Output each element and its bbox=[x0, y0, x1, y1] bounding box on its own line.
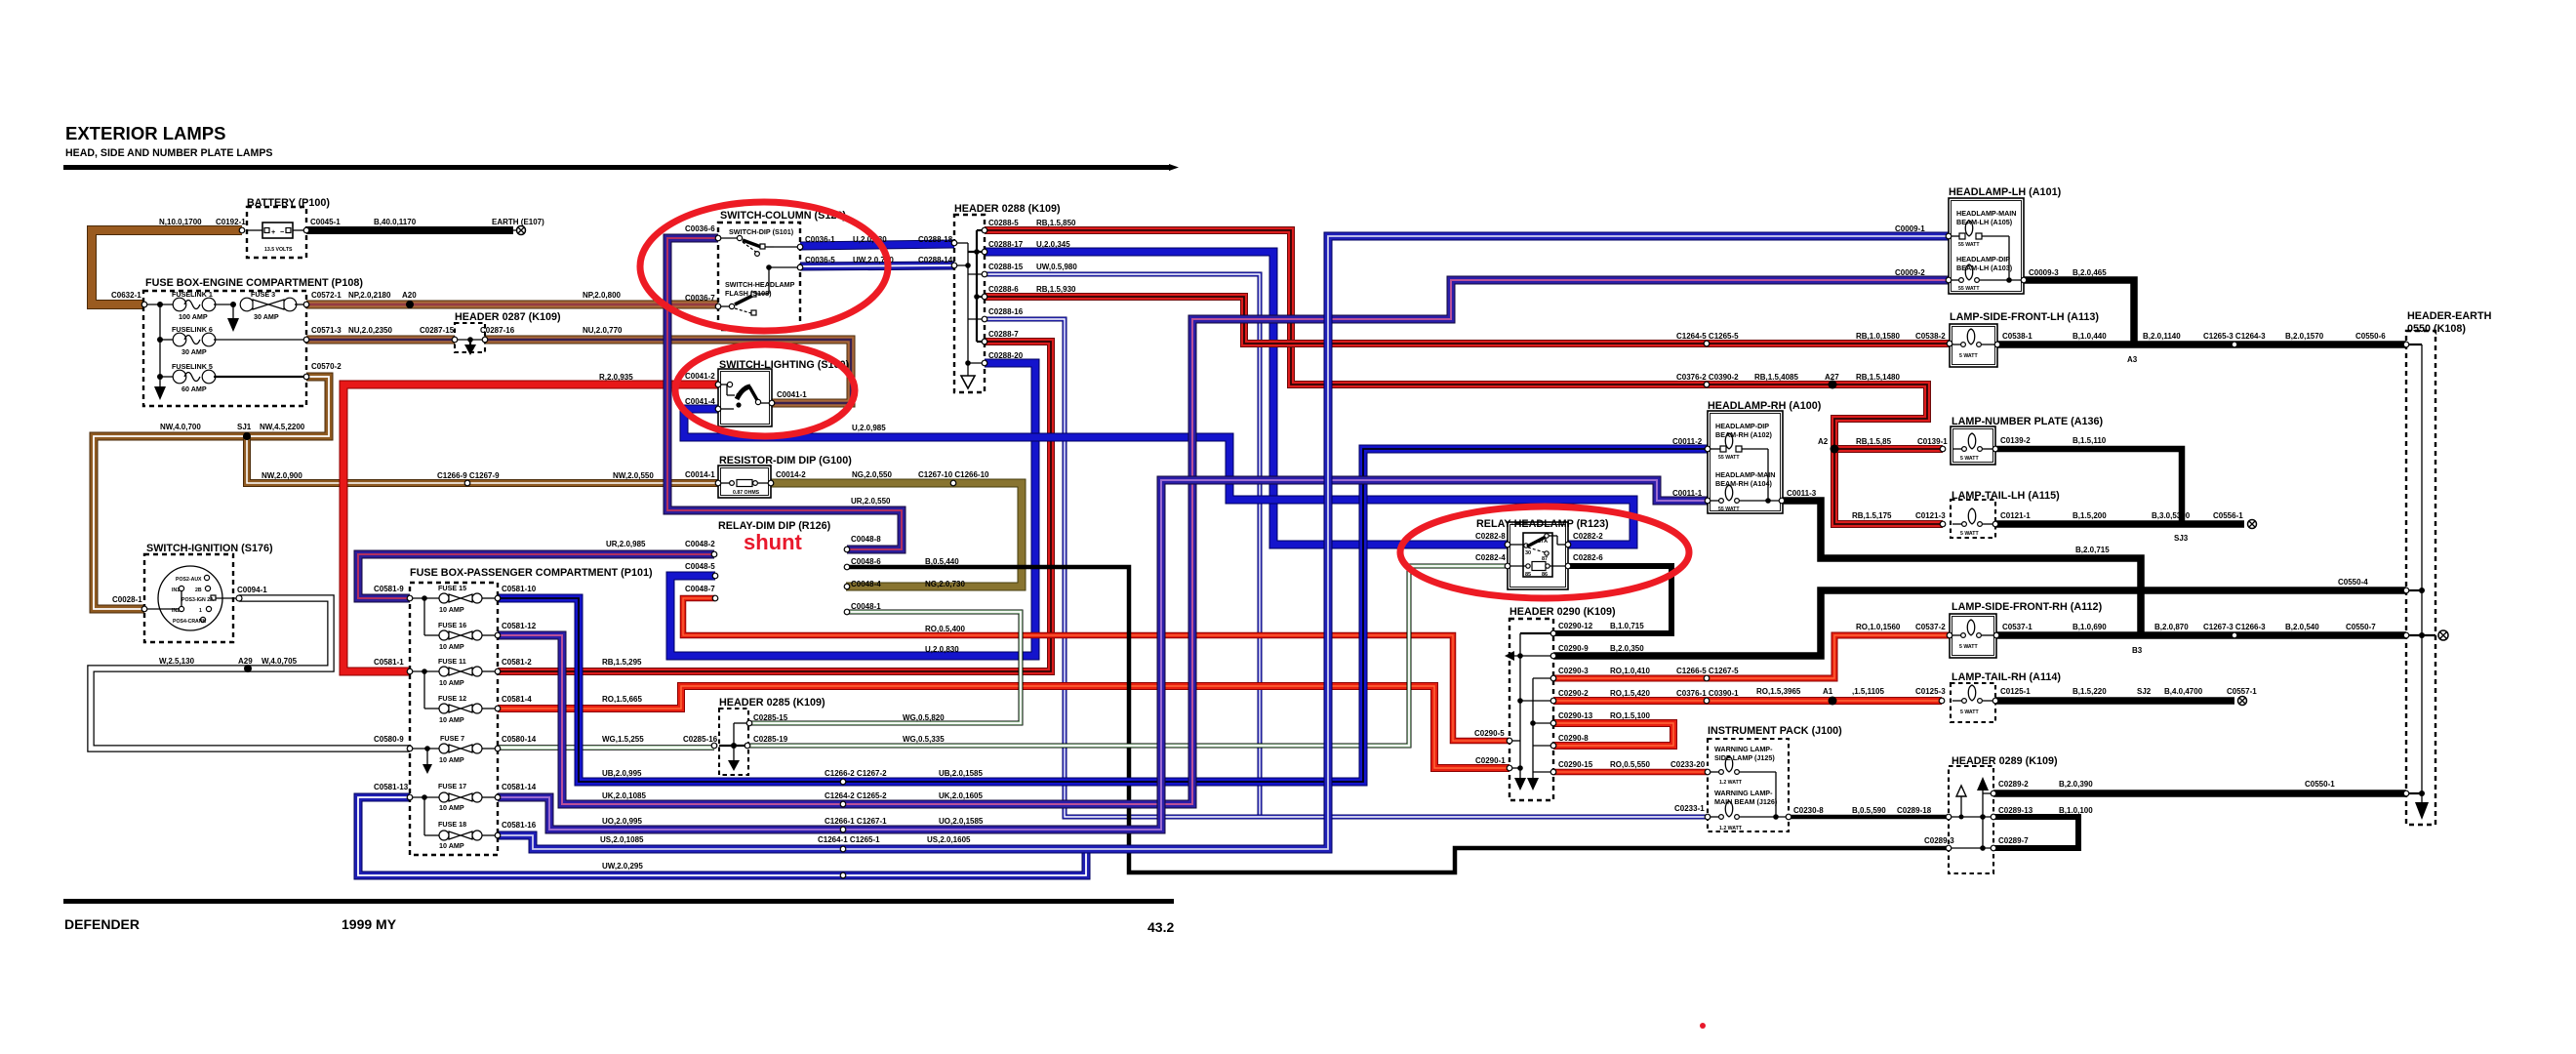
wire B,0.5,440 C0048-6 to header0289 C0289-3 bbox=[847, 567, 1949, 872]
fuse 12 bbox=[423, 671, 425, 709]
svg-text:C0009-1: C0009-1 bbox=[1895, 224, 1925, 233]
svg-text:IN2: IN2 bbox=[172, 608, 180, 614]
svg-text:R,2.0,935: R,2.0,935 bbox=[599, 373, 633, 382]
svg-text:UW,0.5,980: UW,0.5,980 bbox=[1036, 263, 1077, 271]
svg-text:B,2.0,870: B,2.0,870 bbox=[2154, 623, 2189, 631]
junction A27 bbox=[1829, 381, 1837, 389]
svg-text:C0290-8: C0290-8 bbox=[1558, 734, 1589, 743]
svg-text:1.2 WATT: 1.2 WATT bbox=[1719, 826, 1743, 831]
svg-text:C0139-2: C0139-2 bbox=[2000, 436, 2031, 445]
svg-text:NU,2.0,2350: NU,2.0,2350 bbox=[348, 326, 392, 335]
svg-text:C0048-5: C0048-5 bbox=[685, 562, 715, 571]
svg-text:1.2 WATT: 1.2 WATT bbox=[1719, 780, 1743, 786]
wire UW,0.5 header0288 C0288-16 to instrument pack C0233-1 bbox=[985, 319, 1708, 817]
svg-text:C0557-1: C0557-1 bbox=[2227, 687, 2257, 696]
svg-text:FUSELINK 1: FUSELINK 1 bbox=[172, 290, 213, 299]
svg-text:13.5 VOLTS: 13.5 VOLTS bbox=[264, 247, 293, 253]
svg-text:C0581-14: C0581-14 bbox=[502, 783, 537, 791]
svg-text:C0048-8: C0048-8 bbox=[851, 535, 881, 544]
svg-text:B,2.0,715: B,2.0,715 bbox=[2075, 546, 2110, 554]
svg-text:C0556-1: C0556-1 bbox=[2213, 511, 2243, 520]
header 0289 K109 bbox=[1949, 766, 1993, 873]
svg-text:10 AMP: 10 AMP bbox=[439, 841, 464, 850]
svg-text:55 WATT: 55 WATT bbox=[1958, 242, 1980, 248]
wire B,2.0,465 headlamp-LH to A3 bbox=[2024, 280, 2134, 345]
wire NU,2.0,2350 bbox=[306, 336, 455, 345]
svg-text:B,40.0,1170: B,40.0,1170 bbox=[374, 218, 417, 226]
svg-text:C0048-4: C0048-4 bbox=[851, 580, 881, 588]
svg-text:C0282-8: C0282-8 bbox=[1475, 532, 1506, 541]
svg-text:C0288-6: C0288-6 bbox=[988, 285, 1019, 294]
svg-text:HEADLAMP-LH (A101): HEADLAMP-LH (A101) bbox=[1949, 186, 2062, 198]
svg-text:10 AMP: 10 AMP bbox=[439, 803, 464, 812]
lamp tail LH A115 bbox=[1951, 500, 1995, 538]
wire UW,0.5,980 header0288 C0288-15 splice down bbox=[985, 274, 1260, 817]
svg-text:POS3-IGN 2A: POS3-IGN 2A bbox=[181, 597, 214, 603]
svg-text:HEADER 0290 (K109): HEADER 0290 (K109) bbox=[1509, 606, 1616, 618]
svg-text:C0581-2: C0581-2 bbox=[502, 658, 532, 667]
svg-text:C0125-1: C0125-1 bbox=[2000, 687, 2031, 696]
wire B,2.0,715 headlamp-RH C0011-3 to B3 bbox=[1783, 501, 2141, 635]
svg-text:55 WATT: 55 WATT bbox=[1718, 507, 1740, 512]
svg-text:C1265-3 C1264-3: C1265-3 C1264-3 bbox=[2203, 332, 2266, 341]
svg-text:C0289-2: C0289-2 bbox=[1998, 780, 2029, 789]
svg-text:A1: A1 bbox=[1823, 687, 1833, 696]
svg-text:C0581-1: C0581-1 bbox=[374, 658, 404, 667]
earth ring C0556-1 bbox=[2248, 520, 2257, 529]
lamp side front RH A112 bbox=[1950, 614, 1996, 658]
svg-text:UW,2.0,295: UW,2.0,295 bbox=[602, 862, 643, 871]
svg-text:C0139-1: C0139-1 bbox=[1917, 437, 1948, 446]
red dot bottom bbox=[1700, 1023, 1706, 1029]
svg-text:C0125-3: C0125-3 bbox=[1915, 687, 1946, 696]
svg-text:C0581-13: C0581-13 bbox=[374, 783, 409, 791]
svg-text:HEADER-EARTH: HEADER-EARTH bbox=[2407, 310, 2492, 322]
svg-text:C0288-14: C0288-14 bbox=[918, 256, 953, 264]
svg-text:W,2.5,130: W,2.5,130 bbox=[159, 657, 195, 666]
svg-text:55 WATT: 55 WATT bbox=[1958, 286, 1980, 292]
svg-text:FUSE BOX-ENGINE COMPARTMENT (P: FUSE BOX-ENGINE COMPARTMENT (P108) bbox=[145, 277, 363, 289]
wire UO,2.0,995 / UO,2.0,1585 fuse17 to headlamp-RH main C0011-1 bbox=[498, 480, 1708, 830]
svg-text:C0581-16: C0581-16 bbox=[502, 821, 537, 830]
svg-text:WG,1.5,255: WG,1.5,255 bbox=[602, 735, 644, 744]
lamp tail RH A114 bbox=[1951, 683, 1995, 722]
svg-text:RB,1.5,175: RB,1.5,175 bbox=[1852, 511, 1892, 520]
svg-text:5 WATT: 5 WATT bbox=[1960, 456, 1979, 462]
svg-text:C0580-9: C0580-9 bbox=[374, 735, 404, 744]
svg-text:C1267-3 C1266-3: C1267-3 C1266-3 bbox=[2203, 623, 2266, 631]
wire N,10.0,1700 battery to fusebox bbox=[92, 230, 242, 304]
junction A3 bbox=[2131, 342, 2138, 348]
svg-text:NW,4.0,700: NW,4.0,700 bbox=[160, 423, 201, 431]
svg-text:BEAM-LH (A105): BEAM-LH (A105) bbox=[1956, 218, 2013, 226]
svg-text:HEADER 0288 (K109): HEADER 0288 (K109) bbox=[954, 203, 1061, 215]
svg-text:86: 86 bbox=[1542, 572, 1548, 578]
svg-text:C0041-4: C0041-4 bbox=[685, 397, 715, 406]
svg-text:WARNING LAMP-: WARNING LAMP- bbox=[1714, 789, 1773, 797]
svg-text:55 WATT: 55 WATT bbox=[1718, 455, 1740, 461]
svg-text:HEADER 0285 (K109): HEADER 0285 (K109) bbox=[719, 697, 825, 709]
junction A1 bbox=[1829, 697, 1837, 706]
wire NW,2.0,900 / NW,2.0,550 bbox=[247, 436, 718, 483]
wire NW,4.5,2200 / NW,4.0,700 bbox=[94, 377, 329, 609]
wire B,1.0,100 loop C0289-13 to C0289-7 bbox=[1993, 817, 2078, 848]
svg-text:RB,1.5,1480: RB,1.5,1480 bbox=[1856, 373, 1900, 382]
svg-text:C0282-2: C0282-2 bbox=[1573, 532, 1603, 541]
svg-text:FUSE 12: FUSE 12 bbox=[438, 694, 466, 703]
svg-text:B,2.0,465: B,2.0,465 bbox=[2073, 268, 2107, 277]
svg-text:SJ2: SJ2 bbox=[2137, 687, 2152, 696]
svg-text:B,2.0,1570: B,2.0,1570 bbox=[2285, 332, 2324, 341]
svg-text:RB,1.5,930: RB,1.5,930 bbox=[1036, 285, 1076, 294]
svg-text:C0537-2: C0537-2 bbox=[1915, 623, 1946, 631]
svg-text:C0288-20: C0288-20 bbox=[988, 351, 1024, 360]
wire R,2.0,935 fuse11 to switch-lighting bbox=[343, 385, 718, 671]
svg-text:C0285-15: C0285-15 bbox=[753, 713, 788, 722]
svg-text:HEADLAMP-RH (A100): HEADLAMP-RH (A100) bbox=[1708, 400, 1822, 412]
wire U,2.0,830 header C0288-20 to relay-dim-dip C0048-5 bbox=[670, 363, 1035, 656]
svg-text:BATTERY (P100): BATTERY (P100) bbox=[247, 197, 330, 209]
svg-text:C0041-2: C0041-2 bbox=[685, 372, 715, 381]
header earth 0550 K108 bbox=[2406, 331, 2448, 825]
svg-text:C1264-5 C1265-5: C1264-5 C1265-5 bbox=[1676, 332, 1739, 341]
svg-text:C0290-5: C0290-5 bbox=[1474, 729, 1505, 738]
svg-text:FUSE BOX-PASSENGER COMPARTMENT: FUSE BOX-PASSENGER COMPARTMENT (P101) bbox=[410, 567, 653, 579]
svg-text:C1264-1 C1265-1: C1264-1 C1265-1 bbox=[818, 835, 880, 844]
earth E107 symbol bbox=[513, 226, 526, 235]
svg-text:10 AMP: 10 AMP bbox=[439, 755, 464, 764]
wire B,1.0,715 relay C0282-6 to header0290 C0290-12 bbox=[1553, 566, 1671, 633]
svg-text:C0048-6: C0048-6 bbox=[851, 557, 881, 566]
svg-text:C0288-7: C0288-7 bbox=[988, 330, 1019, 339]
svg-text:C0282-4: C0282-4 bbox=[1475, 553, 1506, 562]
svg-text:C0014-1: C0014-1 bbox=[685, 470, 715, 479]
svg-text:RO,1.0,410: RO,1.0,410 bbox=[1610, 667, 1650, 675]
svg-text:HEADLAMP-MAIN: HEADLAMP-MAIN bbox=[1956, 209, 2017, 218]
wire US,2.0,1085 / US,2.0,1605 fuse18 to headlamp-LH main C0009-1 bbox=[498, 236, 1949, 849]
wire RO,1.5,665 fuse12 to header0290 C0290-1 bbox=[498, 686, 1509, 768]
svg-text:NW,2.0,550: NW,2.0,550 bbox=[613, 471, 654, 480]
svg-text:W,4.0,705: W,4.0,705 bbox=[262, 657, 298, 666]
svg-text:HEADLAMP-DIP: HEADLAMP-DIP bbox=[1956, 255, 2010, 263]
svg-text:FUSE 7: FUSE 7 bbox=[440, 734, 464, 743]
wire RO,1.0,410 / RO,1.0,1560 header0290 to lamp-side-front-RH bbox=[1553, 635, 1950, 678]
wire UR,2.0,550 C0036-6 to shunt C0048-8 bbox=[667, 238, 902, 549]
instrument pack J100 bbox=[1708, 739, 1789, 831]
svg-text:NU,2.0,770: NU,2.0,770 bbox=[583, 326, 623, 335]
junction B3 bbox=[2138, 632, 2145, 639]
svg-text:100 AMP: 100 AMP bbox=[179, 312, 208, 321]
battery P100 bbox=[247, 207, 306, 258]
svg-text:C0282-6: C0282-6 bbox=[1573, 553, 1603, 562]
svg-text:B,2.0,390: B,2.0,390 bbox=[2059, 780, 2093, 789]
svg-text:B,2.0,350: B,2.0,350 bbox=[1610, 644, 1644, 653]
svg-text:LAMP-TAIL-LH (A115): LAMP-TAIL-LH (A115) bbox=[1952, 490, 2060, 502]
svg-text:RO,1.0,1560: RO,1.0,1560 bbox=[1856, 623, 1901, 631]
svg-text:30 AMP: 30 AMP bbox=[181, 347, 207, 356]
svg-text:C0045-1: C0045-1 bbox=[310, 218, 341, 226]
svg-text:C0048-7: C0048-7 bbox=[685, 585, 715, 593]
svg-text:C1266-1 C1267-1: C1266-1 C1267-1 bbox=[825, 817, 887, 826]
wire B,1.0,690 / B,2.0,870 / B,2.0,540 lamp-side-RH to header-earth C0550-7 bbox=[1996, 631, 2406, 639]
svg-text:B,2.0,1140: B,2.0,1140 bbox=[2143, 332, 2181, 341]
svg-text:C0538-2: C0538-2 bbox=[1915, 332, 1946, 341]
svg-text:B,1.5,220: B,1.5,220 bbox=[2073, 687, 2107, 696]
svg-text:C1264-2 C1265-2: C1264-2 C1265-2 bbox=[825, 791, 887, 800]
svg-text:SWITCH-DIP (S101): SWITCH-DIP (S101) bbox=[729, 227, 794, 236]
svg-text:C0550-7: C0550-7 bbox=[2346, 623, 2376, 631]
svg-text:C0036-1: C0036-1 bbox=[805, 235, 835, 244]
wire UR,2.0,985 fuse15 feed to shunt C0048-2 bbox=[358, 554, 714, 598]
svg-text:43.2: 43.2 bbox=[1147, 919, 1174, 935]
svg-text:B,0.5,440: B,0.5,440 bbox=[925, 557, 959, 566]
fuselink 5 bbox=[160, 376, 174, 378]
svg-text:2B: 2B bbox=[195, 588, 202, 593]
svg-text:C0287-16: C0287-16 bbox=[480, 326, 515, 335]
svg-text:C0632-1: C0632-1 bbox=[111, 291, 141, 300]
connector symbols on wires bbox=[239, 227, 245, 233]
svg-text:POS4-CRANK: POS4-CRANK bbox=[173, 619, 207, 625]
svg-text:A2: A2 bbox=[1818, 437, 1829, 446]
fuse box engine compartment P108 bbox=[143, 291, 306, 406]
svg-text:B,1.5,200: B,1.5,200 bbox=[2073, 511, 2107, 520]
junction SJ1 bbox=[243, 432, 251, 440]
fuse 7 bbox=[410, 748, 439, 750]
wire B,0.5,590 instrument pack to header0289 C0289-18 bbox=[1789, 815, 1949, 820]
svg-text:BEAM-RH (A104): BEAM-RH (A104) bbox=[1715, 479, 1773, 488]
svg-text:C0581-9: C0581-9 bbox=[374, 585, 404, 593]
svg-text:C1266-2 C1267-2: C1266-2 C1267-2 bbox=[825, 769, 887, 778]
wire UW,2.0,780 bbox=[800, 265, 954, 266]
svg-text:85: 85 bbox=[1525, 572, 1531, 578]
wire WG,0.5,335 header0285 to relay C0282-4 bbox=[747, 566, 1508, 746]
lamp number plate A136 bbox=[1951, 426, 1995, 465]
svg-text:C0290-13: C0290-13 bbox=[1558, 711, 1593, 720]
svg-text:5 WATT: 5 WATT bbox=[1959, 353, 1978, 359]
svg-text:EXTERIOR LAMPS: EXTERIOR LAMPS bbox=[65, 123, 225, 143]
svg-text:C0580-14: C0580-14 bbox=[502, 735, 537, 744]
svg-text:FUSELINK 5: FUSELINK 5 bbox=[172, 362, 213, 371]
svg-text:NG,2.0,550: NG,2.0,550 bbox=[852, 470, 892, 479]
junction A20 bbox=[406, 301, 414, 308]
svg-text:C0581-4: C0581-4 bbox=[502, 695, 532, 704]
headlamp RH A100 bbox=[1708, 411, 1785, 513]
svg-text:C0571-3: C0571-3 bbox=[311, 326, 342, 335]
svg-text:C0036-6: C0036-6 bbox=[685, 224, 715, 233]
svg-text:C0290-3: C0290-3 bbox=[1558, 667, 1589, 675]
svg-text:C0014-2: C0014-2 bbox=[776, 470, 806, 479]
svg-text:C1266-9 C1267-9: C1266-9 C1267-9 bbox=[437, 471, 500, 480]
svg-text:MAIN BEAM (J126): MAIN BEAM (J126) bbox=[1714, 797, 1778, 806]
header 0287 K109 bbox=[455, 323, 485, 355]
svg-text:C0290-9: C0290-9 bbox=[1558, 644, 1589, 653]
svg-text:B,2.0,540: B,2.0,540 bbox=[2285, 623, 2319, 631]
wire U,2.0,345 header0288 to relay C0282-8 bbox=[985, 252, 1508, 545]
junction A29 bbox=[244, 665, 252, 672]
svg-text:RB,1.5,295: RB,1.5,295 bbox=[602, 658, 642, 667]
svg-text:C0550-4: C0550-4 bbox=[2338, 578, 2368, 587]
svg-text:NW,4.5,2200: NW,4.5,2200 bbox=[260, 423, 305, 431]
fuse 15 bbox=[410, 597, 439, 599]
svg-text:UR,2.0,985: UR,2.0,985 bbox=[606, 540, 646, 548]
svg-text:C0048-2: C0048-2 bbox=[685, 540, 715, 548]
svg-text:SJ1: SJ1 bbox=[237, 423, 252, 431]
headlamp LH A101 bbox=[1949, 198, 2024, 294]
svg-text:C0289-13: C0289-13 bbox=[1998, 806, 2033, 815]
svg-text:0550 (K108): 0550 (K108) bbox=[2407, 323, 2466, 335]
svg-text:C0041-1: C0041-1 bbox=[777, 390, 807, 399]
svg-text:RO,1.5,100: RO,1.5,100 bbox=[1610, 711, 1650, 720]
svg-text:30 AMP: 30 AMP bbox=[254, 312, 279, 321]
fuse 3 bbox=[240, 298, 254, 311]
svg-text:RESISTOR-DIM DIP (G100): RESISTOR-DIM DIP (G100) bbox=[719, 455, 852, 466]
svg-text:5 WATT: 5 WATT bbox=[1960, 709, 1979, 715]
wire B,1.5,220 / B,4.0,4700 lamp-tail-RH to C0557-1 earth bbox=[1995, 697, 2234, 705]
svg-text:C0581-10: C0581-10 bbox=[502, 585, 537, 593]
svg-text:A20: A20 bbox=[402, 291, 417, 300]
svg-text:C0009-2: C0009-2 bbox=[1895, 268, 1925, 277]
red ellipse around switch-column bbox=[640, 202, 888, 331]
svg-text:RO,0.5,550: RO,0.5,550 bbox=[1610, 760, 1650, 769]
svg-text:NG,2.0,730: NG,2.0,730 bbox=[925, 580, 965, 588]
svg-text:B,1.0,715: B,1.0,715 bbox=[1610, 622, 1644, 630]
svg-text:C0376-2 C0390-2: C0376-2 C0390-2 bbox=[1676, 373, 1739, 382]
svg-text:C0550-1: C0550-1 bbox=[2305, 780, 2335, 789]
svg-text:C1267-10 C1266-10: C1267-10 C1266-10 bbox=[918, 470, 989, 479]
svg-text:C0011-1: C0011-1 bbox=[1672, 489, 1703, 498]
svg-text:5 WATT: 5 WATT bbox=[1959, 644, 1978, 650]
svg-text:+: + bbox=[271, 227, 275, 236]
fuse 16 bbox=[423, 598, 425, 635]
svg-text:NW,2.0,900: NW,2.0,900 bbox=[262, 471, 302, 480]
svg-text:DEFENDER: DEFENDER bbox=[64, 916, 140, 932]
wire RO,1.5,100 loop C0290-13 to C0290-8 bbox=[1553, 723, 1673, 746]
wire B,40.0,1170 battery to earth bbox=[306, 226, 513, 234]
svg-text:5 WATT: 5 WATT bbox=[1960, 531, 1979, 537]
wire W,2.5,130 / W,4.0,705 ignition switch to fuse7 bbox=[91, 598, 410, 749]
svg-text:−: − bbox=[280, 227, 284, 236]
svg-text:B,1.0,440: B,1.0,440 bbox=[2073, 332, 2107, 341]
svg-text:US,2.0,1605: US,2.0,1605 bbox=[927, 835, 971, 844]
svg-text:UK,2.0,1085: UK,2.0,1085 bbox=[602, 791, 646, 800]
junction SJ3 bbox=[2179, 521, 2185, 527]
fuse 18 bbox=[423, 797, 425, 835]
svg-text:EARTH (E107): EARTH (E107) bbox=[492, 218, 544, 226]
lamp side front LH A113 bbox=[1950, 324, 1997, 367]
TITLE BLOCK bbox=[63, 123, 1179, 935]
svg-text:C0036-7: C0036-7 bbox=[685, 294, 715, 303]
svg-text:FUSELINK 6: FUSELINK 6 bbox=[172, 325, 213, 334]
fuselink 6 bbox=[160, 339, 174, 341]
svg-text:HEAD, SIDE AND NUMBER PLATE LA: HEAD, SIDE AND NUMBER PLATE LAMPS bbox=[65, 147, 272, 159]
svg-text:C0288-5: C0288-5 bbox=[988, 219, 1019, 227]
svg-text:FUSE 11: FUSE 11 bbox=[438, 657, 466, 666]
svg-text:FUSE 15: FUSE 15 bbox=[438, 584, 466, 592]
svg-text:60 AMP: 60 AMP bbox=[181, 385, 207, 393]
relay headlamp R123 bbox=[1508, 522, 1568, 589]
junction A2 bbox=[1831, 445, 1839, 454]
svg-text:C0288-15: C0288-15 bbox=[988, 263, 1024, 271]
svg-text:UO,2.0,1585: UO,2.0,1585 bbox=[939, 817, 984, 826]
svg-text:HEADER 0287 (K109): HEADER 0287 (K109) bbox=[455, 311, 561, 323]
fuse 11 bbox=[410, 670, 439, 672]
svg-text:US,2.0,1085: US,2.0,1085 bbox=[600, 835, 644, 844]
svg-text:C0290-15: C0290-15 bbox=[1558, 760, 1593, 769]
svg-text:B,3.0,5390: B,3.0,5390 bbox=[2152, 511, 2191, 520]
svg-text:WARNING LAMP-: WARNING LAMP- bbox=[1714, 745, 1773, 753]
svg-text:C0285-19: C0285-19 bbox=[753, 735, 788, 744]
wire WG,0.5,820 C0048-1 to header0285 C0285-15 bbox=[747, 612, 1021, 723]
svg-text:NP,2.0,800: NP,2.0,800 bbox=[583, 291, 622, 300]
svg-text:B,0.5,590: B,0.5,590 bbox=[1852, 806, 1886, 815]
svg-text:UK,2.0,1605: UK,2.0,1605 bbox=[939, 791, 983, 800]
svg-text:C0572-1: C0572-1 bbox=[311, 291, 342, 300]
svg-text:SIDE LAMP (J125): SIDE LAMP (J125) bbox=[1714, 753, 1775, 762]
svg-text:B,4.0,4700: B,4.0,4700 bbox=[2164, 687, 2203, 696]
svg-text:B,1.0,100: B,1.0,100 bbox=[2059, 806, 2093, 815]
wire RB,1.5,850 / RB,1.5,4085 / RB,1.5,1480 / RB,1.5,175 bbox=[985, 230, 1943, 524]
svg-text:C0538-1: C0538-1 bbox=[2002, 332, 2033, 341]
svg-text:C0289-18: C0289-18 bbox=[1897, 806, 1932, 815]
connector C1266-9 C1267-9 bbox=[464, 480, 470, 486]
wire B,1.0,440 / B,2.0,1140 / B,2.0,1570 lamp-side-LH to header-earth C0550-6 bbox=[1997, 341, 2406, 348]
svg-text:shunt: shunt bbox=[744, 530, 803, 554]
svg-text:IN1: IN1 bbox=[172, 588, 180, 593]
svg-text:A29: A29 bbox=[238, 657, 253, 666]
wire UB,2.0,995 / UB,2.0,1585 fuse15 to headlamp-RH dip C0011-2 bbox=[498, 449, 1708, 782]
header 0290 K109 bbox=[1505, 619, 1553, 800]
svg-text:C0233-20: C0233-20 bbox=[1670, 760, 1706, 769]
svg-text:C0285-16: C0285-16 bbox=[683, 735, 718, 744]
wire RB,1.5,85 branch A2 to lamp-number-plate bbox=[1834, 445, 1943, 453]
svg-text:C1266-5 C1267-5: C1266-5 C1267-5 bbox=[1676, 667, 1739, 675]
svg-text:FLASH (S108): FLASH (S108) bbox=[725, 289, 772, 298]
svg-text:UB,2.0,995: UB,2.0,995 bbox=[602, 769, 642, 778]
wire UK,2.0,1085 / UK,2.0,1605 fuse16 to headlamp-LH dip C0009-2 bbox=[498, 280, 1949, 804]
svg-text:10 AMP: 10 AMP bbox=[439, 605, 464, 614]
svg-text:SJ3: SJ3 bbox=[2174, 534, 2189, 543]
svg-text:RB,1.5,850: RB,1.5,850 bbox=[1036, 219, 1076, 227]
svg-text:C0289-7: C0289-7 bbox=[1998, 836, 2029, 845]
svg-text:LAMP-SIDE-FRONT-LH (A113): LAMP-SIDE-FRONT-LH (A113) bbox=[1950, 311, 2099, 323]
svg-text:RO,0.5,400: RO,0.5,400 bbox=[925, 625, 965, 633]
svg-text:10 AMP: 10 AMP bbox=[439, 715, 464, 724]
svg-text:C0121-3: C0121-3 bbox=[1915, 511, 1946, 520]
wire U,2.0,985 switch-lighting to relay C0282-2 bbox=[684, 409, 1633, 545]
svg-text:C0011-2: C0011-2 bbox=[1672, 437, 1703, 446]
wire RO,0.5,400 C0048-7 to header0290 C0290-5 bbox=[683, 598, 1509, 741]
svg-text:C0537-1: C0537-1 bbox=[2002, 623, 2033, 631]
svg-text:1: 1 bbox=[199, 608, 202, 614]
svg-text:BEAM-RH (A102): BEAM-RH (A102) bbox=[1715, 430, 1773, 439]
svg-text:C0376-1 C0390-1: C0376-1 C0390-1 bbox=[1676, 689, 1739, 698]
wire NP,2.0,2180 / NP,2.0,800 bbox=[306, 301, 718, 309]
svg-text:C0011-3: C0011-3 bbox=[1787, 489, 1817, 498]
svg-text:HEADLAMP-DIP: HEADLAMP-DIP bbox=[1715, 422, 1769, 430]
svg-text:A3: A3 bbox=[2127, 355, 2138, 364]
svg-text:C0570-2: C0570-2 bbox=[311, 362, 342, 371]
svg-text:RB,1.0,1580: RB,1.0,1580 bbox=[1856, 332, 1900, 341]
svg-text:N,10.0,1700: N,10.0,1700 bbox=[159, 218, 202, 226]
switch column S123 bbox=[718, 223, 800, 330]
svg-text:LAMP-TAIL-RH (A114): LAMP-TAIL-RH (A114) bbox=[1952, 671, 2061, 683]
svg-text:U,2.0,345: U,2.0,345 bbox=[1036, 240, 1070, 249]
svg-text:C0290-2: C0290-2 bbox=[1558, 689, 1589, 698]
wire RO,0.5,550 header0290 to instrument pack C0233-20 bbox=[1553, 769, 1708, 776]
svg-text:C0290-1: C0290-1 bbox=[1475, 756, 1506, 765]
svg-text:SWITCH-HEADLAMP: SWITCH-HEADLAMP bbox=[725, 280, 795, 289]
svg-text:B,1.5,110: B,1.5,110 bbox=[2073, 436, 2107, 445]
